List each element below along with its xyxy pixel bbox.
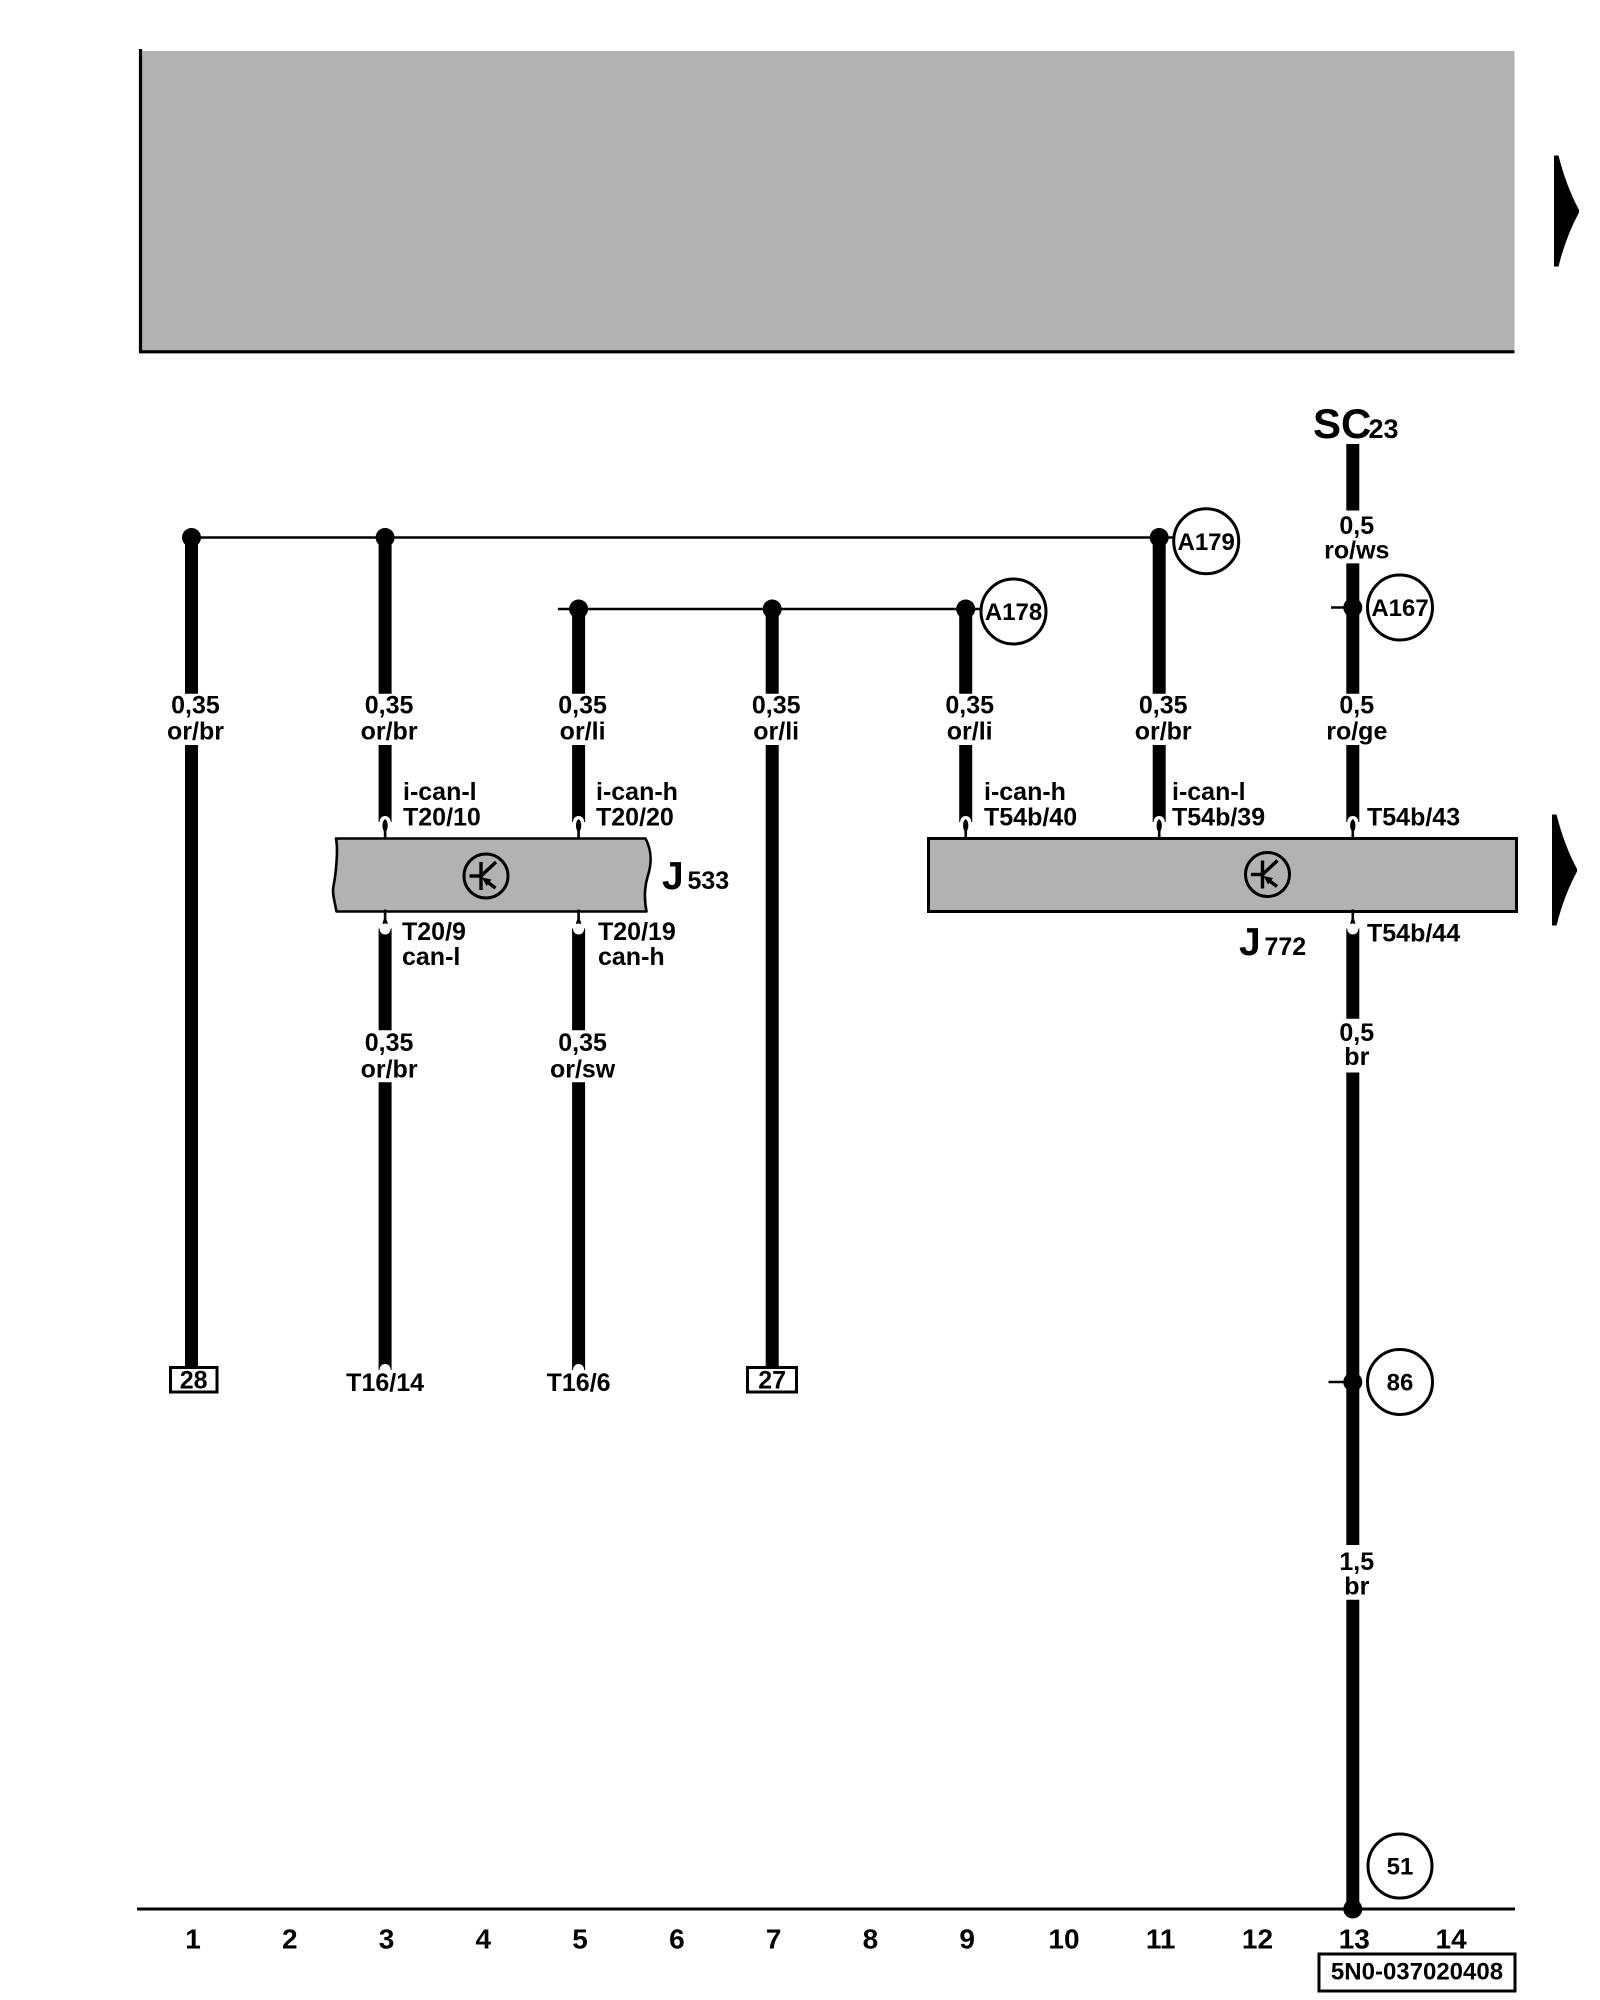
- current track continuation arrow (top right): [1554, 156, 1579, 267]
- svg-text:11: 11: [1146, 1924, 1176, 1955]
- pin T54b/39 into J772: [1157, 819, 1162, 841]
- svg-text:86: 86: [1387, 1370, 1414, 1397]
- svg-text:0,5: 0,5: [1339, 692, 1374, 720]
- svg-text:or/li: or/li: [947, 718, 993, 746]
- junction dot line2/wire5: [569, 600, 588, 619]
- banner continuation box (grey header): [139, 49, 1515, 352]
- pin label i-can-h T54b/40: [984, 778, 1077, 832]
- wire 13 segment below J772 (0,5 br): [1346, 929, 1359, 1019]
- svg-text:4: 4: [476, 1924, 492, 1955]
- svg-text:8: 8: [863, 1924, 879, 1955]
- wire 9 terminal cup at J772: [960, 816, 971, 827]
- svg-text:or/li: or/li: [560, 718, 606, 746]
- current track continuation arrow (right, at J772): [1552, 815, 1577, 926]
- pin label i-can-h T20/20: [596, 778, 678, 832]
- svg-text:5N0-037020408: 5N0-037020408: [1331, 1959, 1503, 1986]
- pin T54b/43 into J772: [1350, 819, 1355, 841]
- wire 13 label 0,5 ro/ge: [1326, 692, 1387, 746]
- wire 9 upper segment (0,35 or/li): [959, 604, 972, 694]
- wire 9 segment into J772: [959, 745, 972, 822]
- control unit J772 box: [929, 839, 1517, 912]
- svg-text:23: 23: [1369, 414, 1399, 444]
- svg-text:51: 51: [1387, 1854, 1414, 1881]
- svg-text:T20/20: T20/20: [596, 804, 674, 832]
- svg-text:0,35: 0,35: [945, 692, 994, 720]
- svg-text:7: 7: [766, 1924, 782, 1955]
- svg-text:14: 14: [1436, 1924, 1468, 1955]
- svg-text:13: 13: [1339, 1924, 1370, 1955]
- svg-text:A178: A178: [985, 599, 1042, 626]
- svg-text:or/li: or/li: [753, 718, 799, 746]
- svg-text:1: 1: [185, 1924, 201, 1955]
- wire 11 terminal cup at J772: [1154, 816, 1165, 827]
- svg-text:T20/9: T20/9: [402, 918, 466, 946]
- svg-text:T20/19: T20/19: [598, 918, 676, 946]
- svg-text:br: br: [1344, 1573, 1369, 1601]
- terminal box 27: [748, 1367, 797, 1395]
- svg-text:A179: A179: [1178, 529, 1235, 556]
- wire 3 upper segment (0,35 or/br): [379, 533, 392, 694]
- junction dot 86: [1343, 1373, 1362, 1392]
- terminal box 28: [171, 1367, 218, 1395]
- wire 1 label 0,35 or/br: [167, 692, 224, 746]
- track numbers 1-14: [185, 1924, 1467, 1955]
- wire 7 label 0,35 or/li: [752, 692, 801, 746]
- ground rail / track baseline: [137, 1908, 1515, 1911]
- ground junction dot on rail: [1343, 1900, 1362, 1919]
- svg-text:533: 533: [688, 867, 730, 895]
- wire 13 label 0,5 ro/ws: [1324, 512, 1389, 565]
- wire 3 terminal cup T16/14: [380, 1364, 391, 1375]
- wire 13 terminal cup at J772: [1347, 816, 1358, 827]
- gateway K symbol in J533: [464, 854, 508, 898]
- pin T20/9 out of J533: [382, 910, 387, 932]
- svg-text:T54b/43: T54b/43: [1367, 804, 1460, 832]
- svg-text:i-can-h: i-can-h: [984, 778, 1066, 806]
- wire: horizontal bus line 2 (to A178): [558, 608, 981, 611]
- connector circle 51: [1368, 1834, 1432, 1898]
- svg-text:A167: A167: [1371, 595, 1428, 622]
- svg-text:ro/ws: ro/ws: [1324, 537, 1389, 565]
- pin T20/20 into J533: [576, 819, 581, 841]
- svg-text:0,35: 0,35: [365, 692, 414, 720]
- svg-text:772: 772: [1265, 933, 1307, 961]
- svg-text:0,35: 0,35: [558, 692, 607, 720]
- svg-text:i-can-h: i-can-h: [596, 778, 678, 806]
- wire 3 cup below J533: [379, 929, 392, 1031]
- wire 13 segment into J772: [1346, 745, 1359, 822]
- connection tick A167: [1331, 606, 1346, 609]
- svg-text:27: 27: [758, 1367, 786, 1395]
- svg-text:br: br: [1344, 1043, 1369, 1071]
- svg-text:0,35: 0,35: [171, 692, 220, 720]
- junction dot line2/wire9: [956, 600, 975, 619]
- wire 5 terminal cup at J533: [573, 816, 584, 827]
- svg-text:10: 10: [1048, 1924, 1079, 1955]
- wire 5 upper segment (0,35 or/li): [572, 604, 585, 694]
- svg-text:can-l: can-l: [402, 943, 460, 971]
- wire 1 lower segment to terminal 28: [185, 745, 198, 1368]
- connector circle A167: [1368, 575, 1433, 640]
- svg-text:2: 2: [282, 1924, 298, 1955]
- wire 13 label 0,5 br: [1339, 1019, 1374, 1071]
- svg-text:T16/14: T16/14: [346, 1369, 424, 1397]
- svg-text:or/br: or/br: [1135, 718, 1192, 746]
- pin T54b/40 into J772: [963, 819, 968, 841]
- wire 9 label 0,35 or/li: [945, 692, 994, 746]
- svg-text:can-h: can-h: [598, 943, 665, 971]
- label J533: [662, 855, 729, 898]
- connector circle A179: [1174, 509, 1239, 574]
- wire 11 upper segment (0,35 or/br): [1153, 533, 1166, 694]
- wire 7 upper segment (0,35 or/li): [766, 604, 779, 694]
- pin label T20/19 can-h: [598, 918, 676, 971]
- svg-text:0,35: 0,35: [752, 692, 801, 720]
- svg-text:or/br: or/br: [167, 718, 224, 746]
- junction dot line1/wire3: [376, 528, 395, 547]
- svg-text:0,35: 0,35: [1139, 692, 1188, 720]
- svg-text:28: 28: [180, 1367, 208, 1395]
- connector circle A178: [981, 579, 1046, 644]
- pin label i-can-l T20/10: [403, 778, 481, 832]
- connector circle 86: [1368, 1350, 1433, 1415]
- svg-text:J: J: [1239, 921, 1261, 964]
- junction dot line1/wire11: [1150, 528, 1169, 547]
- junction dot A167: [1343, 598, 1362, 617]
- wire 5 cup below J533: [572, 929, 585, 1031]
- wire 5 label 0,35 or/li: [558, 692, 607, 746]
- svg-text:T54b/39: T54b/39: [1172, 804, 1265, 832]
- wire 13 label 1,5 br: [1339, 1548, 1374, 1601]
- svg-text:or/br: or/br: [361, 718, 418, 746]
- svg-text:0,35: 0,35: [558, 1029, 607, 1057]
- wire: horizontal bus line 1 (to A179): [184, 536, 1174, 539]
- pin T20/19 out of J533: [576, 910, 581, 932]
- svg-text:i-can-l: i-can-l: [1172, 778, 1246, 806]
- junction dot line2/wire7: [763, 600, 782, 619]
- wire 5 terminal cup T16/6: [573, 1364, 584, 1375]
- pin label i-can-l T54b/39: [1172, 778, 1265, 832]
- wire 5 label 0,35 or/sw (lower): [550, 1029, 616, 1084]
- svg-text:T16/6: T16/6: [547, 1369, 611, 1397]
- wire 1 upper segment (0,35 or/br): [185, 533, 198, 694]
- wire 13 segment from SC23: [1346, 444, 1359, 511]
- svg-text:T54b/40: T54b/40: [984, 804, 1077, 832]
- svg-text:i-can-l: i-can-l: [403, 778, 477, 806]
- pin label T20/9 can-l: [402, 918, 466, 971]
- label J772: [1239, 921, 1306, 964]
- wire 11 label 0,35 or/br: [1135, 692, 1192, 746]
- wire 3 lower segment to T16/14: [379, 1082, 392, 1370]
- svg-text:T20/10: T20/10: [403, 804, 481, 832]
- wire 3 segment into J533: [379, 745, 392, 822]
- svg-text:0,35: 0,35: [365, 1029, 414, 1057]
- svg-text:5: 5: [572, 1924, 588, 1955]
- wire 13 segment to A167: [1346, 563, 1359, 693]
- wire 3 label 0,35 or/br (lower): [361, 1029, 418, 1084]
- pin T20/10 into J533: [382, 819, 387, 841]
- svg-text:or/sw: or/sw: [550, 1056, 616, 1084]
- svg-text:6: 6: [669, 1924, 685, 1955]
- svg-text:J: J: [662, 855, 684, 898]
- node SC23 (fuse box label): [1313, 400, 1399, 447]
- wire 3 terminal cup at J533: [380, 816, 391, 827]
- wire 5 segment into J533: [572, 745, 585, 822]
- wire 13 segment to junction 86: [1346, 1073, 1359, 1546]
- svg-text:T54b/44: T54b/44: [1367, 920, 1460, 948]
- svg-text:9: 9: [959, 1924, 975, 1955]
- gateway K symbol in J772: [1246, 853, 1290, 897]
- junction dot line1/wire1: [182, 528, 201, 547]
- wire 5 lower segment to T16/6: [572, 1082, 585, 1370]
- wire 13 segment to ground rail: [1346, 1600, 1359, 1909]
- pin T54b/44 out of J772: [1350, 910, 1355, 932]
- svg-text:12: 12: [1242, 1924, 1273, 1955]
- part number box 5N0-037020408: [1319, 1954, 1515, 1991]
- svg-text:ro/ge: ro/ge: [1326, 718, 1387, 746]
- connection tick 86: [1329, 1381, 1347, 1384]
- wire 3 label 0,35 or/br: [361, 692, 418, 746]
- wire 11 segment into J772: [1153, 745, 1166, 822]
- svg-text:or/br: or/br: [361, 1056, 418, 1084]
- control unit J533 gateway box (torn edges): [333, 839, 651, 912]
- wire 7 lower segment to terminal 27: [766, 745, 779, 1368]
- svg-text:SC: SC: [1313, 400, 1371, 447]
- svg-text:3: 3: [379, 1924, 395, 1955]
